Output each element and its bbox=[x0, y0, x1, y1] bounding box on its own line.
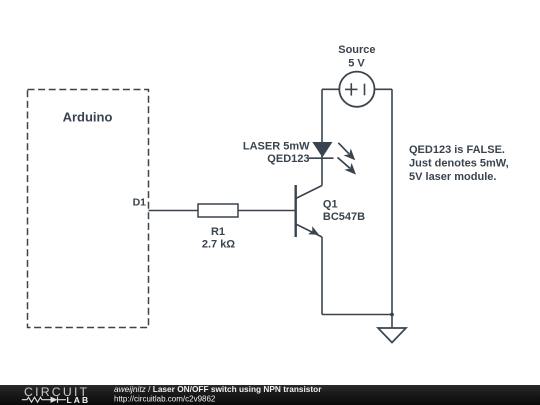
svg-text:aweijnitz / Laser ON/OFF switc: aweijnitz / Laser ON/OFF switch using NP… bbox=[114, 384, 322, 394]
svg-text:R1: R1 bbox=[211, 226, 225, 238]
svg-text:LASER 5mW: LASER 5mW bbox=[243, 141, 310, 153]
svg-text:Just denotes 5mW,: Just denotes 5mW, bbox=[409, 158, 509, 170]
svg-text:5 V: 5 V bbox=[348, 58, 365, 70]
svg-text:Source: Source bbox=[338, 44, 375, 56]
svg-text:BC547B: BC547B bbox=[323, 211, 365, 223]
svg-text:QED123 is FALSE.: QED123 is FALSE. bbox=[409, 144, 505, 156]
svg-text:Q1: Q1 bbox=[323, 198, 338, 210]
svg-text:QED123: QED123 bbox=[267, 153, 309, 165]
svg-text:http://circuitlab.com/c2v9862: http://circuitlab.com/c2v9862 bbox=[114, 394, 216, 403]
svg-text:D1: D1 bbox=[133, 197, 147, 209]
svg-text:2.7 kΩ: 2.7 kΩ bbox=[202, 239, 235, 251]
svg-text:LAB: LAB bbox=[67, 395, 91, 405]
svg-text:Arduino: Arduino bbox=[63, 110, 113, 125]
svg-text:5V laser module.: 5V laser module. bbox=[409, 171, 496, 183]
